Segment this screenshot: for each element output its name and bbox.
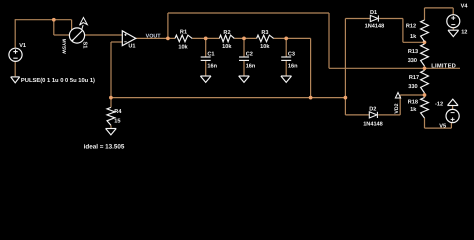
svg-text:1k: 1k bbox=[410, 106, 417, 113]
svg-text:D1: D1 bbox=[370, 10, 377, 16]
svg-text:S1: S1 bbox=[82, 42, 88, 49]
svg-text:R13: R13 bbox=[408, 49, 418, 55]
svg-text:16n: 16n bbox=[207, 64, 217, 70]
svg-text:R3: R3 bbox=[261, 30, 268, 36]
svg-text:C3: C3 bbox=[288, 51, 295, 57]
svg-text:12: 12 bbox=[461, 30, 467, 36]
svg-text:PULSE(0 1 1u 0 0 5u 10u 1): PULSE(0 1 1u 0 0 5u 10u 1) bbox=[21, 77, 95, 84]
svg-text:15: 15 bbox=[114, 118, 120, 124]
svg-text:R1: R1 bbox=[180, 29, 187, 35]
svg-text:MYSW: MYSW bbox=[60, 39, 66, 54]
svg-text:V5: V5 bbox=[439, 124, 446, 130]
svg-text:1N4148: 1N4148 bbox=[363, 121, 383, 127]
svg-text:R4: R4 bbox=[114, 109, 122, 115]
svg-text:V1: V1 bbox=[19, 43, 26, 49]
svg-text:C2: C2 bbox=[246, 51, 253, 57]
svg-text:U1: U1 bbox=[128, 44, 135, 50]
svg-text:VOUT: VOUT bbox=[146, 33, 162, 39]
svg-text:10k: 10k bbox=[260, 43, 270, 50]
svg-text:R18: R18 bbox=[408, 99, 418, 105]
svg-text:C1: C1 bbox=[207, 51, 214, 57]
svg-text:16n: 16n bbox=[246, 64, 256, 70]
svg-text:1N4148: 1N4148 bbox=[365, 24, 385, 30]
svg-text:1k: 1k bbox=[410, 33, 417, 40]
svg-text:330: 330 bbox=[408, 58, 417, 64]
svg-text:R12: R12 bbox=[406, 23, 416, 29]
svg-text:R2: R2 bbox=[223, 30, 230, 36]
svg-text:-12: -12 bbox=[435, 101, 443, 107]
svg-text:LIMITED: LIMITED bbox=[431, 64, 456, 70]
svg-text:D2: D2 bbox=[369, 106, 376, 112]
svg-text:VD2: VD2 bbox=[394, 103, 400, 113]
svg-text:10k: 10k bbox=[178, 44, 188, 51]
svg-text:R17: R17 bbox=[409, 75, 419, 81]
svg-text:ideal = 13.505: ideal = 13.505 bbox=[84, 143, 125, 150]
svg-text:10k: 10k bbox=[222, 43, 232, 50]
svg-text:330: 330 bbox=[408, 84, 417, 90]
svg-text:16n: 16n bbox=[288, 64, 298, 70]
svg-text:V4: V4 bbox=[461, 3, 469, 9]
